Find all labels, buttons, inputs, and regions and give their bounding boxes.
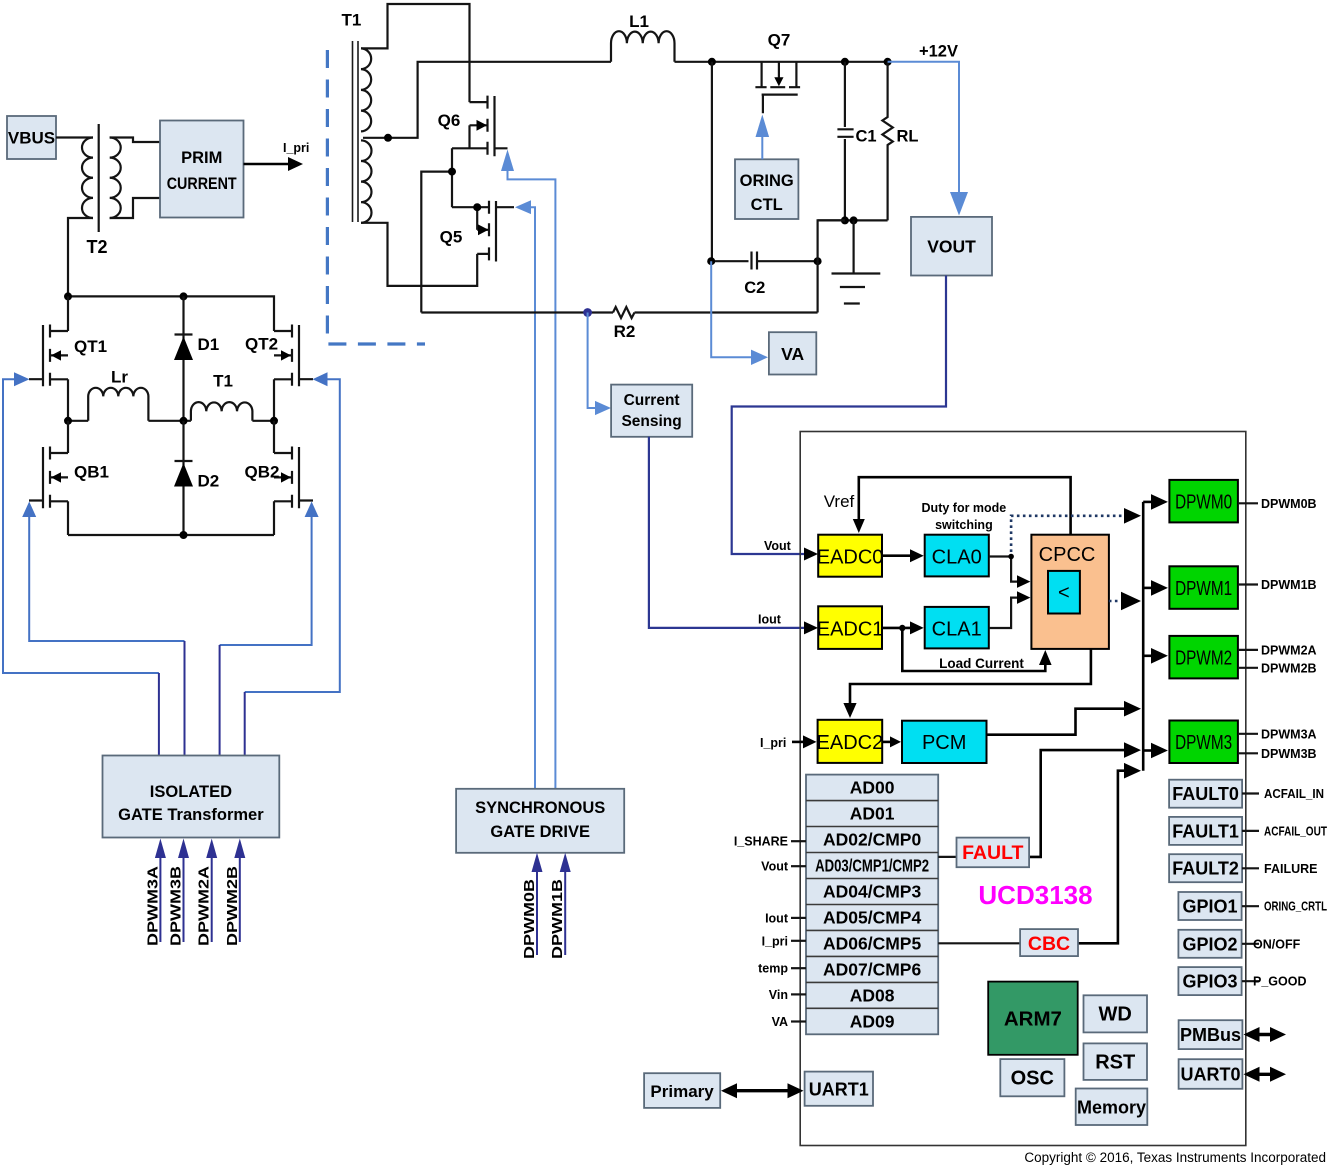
block Current Sensing <box>611 385 692 437</box>
svg-text:T1: T1 <box>213 372 233 391</box>
svg-text:CURRENT: CURRENT <box>167 175 237 193</box>
wire DPWM2B gate drive to QT2 <box>245 379 340 692</box>
wire C2 right to output bottom rail <box>818 220 845 261</box>
wire EADC1 to CLA1 <box>882 627 913 630</box>
wire C2 to VA <box>711 261 752 357</box>
svg-text:CLA1: CLA1 <box>932 619 982 641</box>
wire CPCC bottom to EADC2 <box>850 649 1091 706</box>
svg-text:AD07/CMP6: AD07/CMP6 <box>823 959 921 979</box>
svg-text:FAULT0: FAULT0 <box>1172 784 1239 804</box>
svg-text:ORING_CRTL: ORING_CRTL <box>1264 900 1327 914</box>
node junction mid rail left <box>64 417 72 425</box>
svg-text:QT1: QT1 <box>74 337 107 356</box>
svg-text:AD06/CMP5: AD06/CMP5 <box>823 933 921 953</box>
node pin Vout <box>791 865 806 867</box>
wire DPWM2B input arrow <box>239 858 241 942</box>
wire mux to DPWM2 <box>1143 654 1153 657</box>
svg-text:I_SHARE: I_SHARE <box>734 835 788 849</box>
diode D2 <box>174 421 193 535</box>
svg-text:I_pri: I_pri <box>762 934 788 948</box>
diode D1 <box>174 296 193 420</box>
node pin DPWM2B <box>1238 667 1258 669</box>
block EADC1 <box>817 606 884 649</box>
wire CPCC output dotted to DPWM mux <box>1109 600 1120 603</box>
svg-text:DPWM3A: DPWM3A <box>144 866 161 946</box>
wire load current from EADC1 output to CPCC <box>902 628 1045 671</box>
block GPIO2 <box>1178 930 1241 958</box>
svg-text:FAILURE: FAILURE <box>1264 862 1317 876</box>
svg-text:GPIO1: GPIO1 <box>1182 897 1237 917</box>
block VOUT <box>911 217 992 276</box>
wire Primary to UART1 bidirectional <box>733 1089 791 1092</box>
svg-text:AD03/CMP1/CMP2: AD03/CMP1/CMP2 <box>815 856 929 876</box>
node pin DPWM3A <box>1238 733 1258 735</box>
block GPIO1 <box>1178 892 1241 920</box>
node pin DPWM1B <box>1238 583 1258 585</box>
svg-text:Memory: Memory <box>1077 1098 1146 1118</box>
block CBC <box>1020 929 1078 956</box>
node junction L1/C2 <box>708 58 716 66</box>
svg-text:FAULT: FAULT <box>962 842 1023 864</box>
svg-text:RL: RL <box>897 128 919 146</box>
svg-text:QB1: QB1 <box>74 463 109 482</box>
transformer T2 secondary winding <box>110 138 121 219</box>
wire output bottom rail <box>818 219 888 221</box>
node pin P_GOOD <box>1242 980 1259 982</box>
wire R2 rail <box>421 311 613 313</box>
svg-text:DPWM3: DPWM3 <box>1175 732 1232 754</box>
svg-text:CLA0: CLA0 <box>932 547 982 569</box>
node junction ground rail a <box>841 216 849 224</box>
wire DPWM3A gate drive to QT1 <box>3 379 159 673</box>
block Primary <box>644 1073 720 1108</box>
node pin VA <box>791 1020 806 1022</box>
svg-text:I_pri: I_pri <box>760 736 786 750</box>
wire EADC2 to PCM <box>882 741 893 744</box>
wire CLA0 to CPCC <box>989 557 1020 582</box>
node junction C2 right <box>814 257 822 265</box>
svg-text:AD09: AD09 <box>850 1011 895 1031</box>
resistor RL <box>882 62 892 221</box>
block UART1 <box>805 1072 873 1106</box>
wire AD03 to FAULT <box>938 856 956 858</box>
svg-text:<: < <box>1058 582 1070 604</box>
svg-text:DPWM1B: DPWM1B <box>1261 578 1317 592</box>
svg-text:Q7: Q7 <box>768 31 791 50</box>
wire FAULT to mux <box>1029 750 1126 857</box>
svg-text:VOUT: VOUT <box>927 237 976 257</box>
wire R2 tap to current sensing <box>588 313 596 409</box>
svg-text:ON/OFF: ON/OFF <box>1253 937 1301 951</box>
wire AD06 to CBC <box>938 942 1020 944</box>
node junction bottom rail <box>180 531 188 539</box>
svg-text:ORING: ORING <box>740 172 794 190</box>
wire current sensing to EADC1 <box>649 437 810 628</box>
svg-text:DPWM2B: DPWM2B <box>224 866 241 946</box>
wire T2 secondary bottom to PRIM CURRENT <box>110 198 160 218</box>
block ARM7 <box>988 982 1077 1055</box>
node pin FAILURE <box>1242 867 1259 869</box>
inductor T1 primary <box>191 402 253 421</box>
node R2 tap junction <box>583 308 592 317</box>
wire QT2 source <box>273 379 275 421</box>
svg-text:DPWM3B: DPWM3B <box>168 866 185 946</box>
block DPWM3 <box>1169 721 1238 764</box>
block PRIM CURRENT <box>160 121 244 218</box>
block ORING CTL <box>735 159 798 219</box>
svg-text:Vref: Vref <box>824 492 855 511</box>
svg-text:Vin: Vin <box>769 988 788 1002</box>
node pin DPWM2A <box>1238 649 1258 651</box>
block RST <box>1084 1043 1148 1080</box>
svg-text:Copyright © 2016, Texas Instru: Copyright © 2016, Texas Instruments Inco… <box>1024 1150 1326 1165</box>
svg-text:QT2: QT2 <box>245 335 278 354</box>
node pin Vin <box>791 993 806 995</box>
wire mux to DPWM3 <box>1143 749 1153 752</box>
svg-text:T2: T2 <box>86 237 107 257</box>
svg-text:Vout: Vout <box>764 539 792 553</box>
wire mux to DPWM0 <box>1143 501 1153 504</box>
svg-text:AD04/CMP3: AD04/CMP3 <box>823 882 921 902</box>
svg-text:DPWM2: DPWM2 <box>1175 647 1232 669</box>
wire Q6 source junction <box>421 148 452 312</box>
ground <box>832 220 881 303</box>
wire bridge top rail <box>68 296 274 331</box>
block GPIO3 <box>1178 967 1241 995</box>
block EADC0 <box>817 535 884 577</box>
svg-text:OSC: OSC <box>1011 1068 1054 1090</box>
block PCM <box>902 721 987 763</box>
svg-text:DPWM1: DPWM1 <box>1175 578 1232 600</box>
node pin DPWM3B <box>1238 752 1258 754</box>
svg-text:ISOLATED: ISOLATED <box>150 783 232 801</box>
svg-text:AD00: AD00 <box>850 778 895 798</box>
wire UART0 bidirectional <box>1255 1073 1274 1076</box>
transistor QT2 <box>274 325 313 387</box>
transformer T1 secondary lower winding <box>361 140 372 222</box>
node pin temp <box>791 967 806 969</box>
node junction mid rail right <box>270 417 278 425</box>
wire L1 junction down to C2 <box>711 62 713 261</box>
svg-text:UART0: UART0 <box>1180 1065 1240 1085</box>
transistor QB2 <box>274 447 313 509</box>
block WD <box>1084 995 1148 1032</box>
wire DPWM2A input arrow <box>211 858 213 942</box>
wire DPWM0B sync drive to Q5 gate <box>530 207 535 789</box>
wire DPWM3A input arrow <box>159 858 161 942</box>
node pin ON/OFF <box>1242 943 1259 945</box>
block FAULT2 <box>1169 854 1242 882</box>
svg-text:Sensing: Sensing <box>621 413 681 430</box>
node junction RL top <box>884 58 892 66</box>
wire duty dotted to DPWM mux <box>1011 516 1126 552</box>
wire QB2 drain/source <box>273 421 275 535</box>
transformer T1 secondary upper winding <box>361 48 371 131</box>
svg-text:+12V: +12V <box>919 43 958 61</box>
svg-text:DPWM2A: DPWM2A <box>196 866 213 946</box>
svg-text:temp: temp <box>758 962 788 976</box>
block UART0 <box>1179 1059 1243 1089</box>
node pin Iout <box>791 917 806 919</box>
svg-text:CPCC: CPCC <box>1039 544 1096 566</box>
svg-text:DPWM0B: DPWM0B <box>1261 497 1317 511</box>
svg-text:EADC0: EADC0 <box>817 547 884 569</box>
block EADC2 <box>817 720 884 763</box>
svg-text:ARM7: ARM7 <box>1004 1008 1062 1031</box>
svg-text:GPIO3: GPIO3 <box>1182 972 1237 992</box>
svg-text:VBUS: VBUS <box>8 129 55 148</box>
svg-text:PCM: PCM <box>922 732 966 754</box>
transistor QB1 <box>29 447 68 509</box>
svg-text:EADC2: EADC2 <box>817 732 884 754</box>
block OSC <box>1000 1059 1064 1096</box>
svg-text:D1: D1 <box>198 335 220 354</box>
wire Vref feedback from CPCC <box>859 477 1071 535</box>
svg-text:PMBus: PMBus <box>1180 1025 1241 1045</box>
node Q5 drain junction <box>473 203 481 211</box>
svg-text:GATE Transformer: GATE Transformer <box>118 806 264 824</box>
wire T1 secondary top to Q6 drain <box>361 4 470 102</box>
svg-text:Iout: Iout <box>765 911 789 925</box>
wire DPWM mux vertical <box>1142 502 1145 771</box>
wire R2 rail right <box>635 311 818 313</box>
svg-text:CBC: CBC <box>1028 933 1070 955</box>
svg-text:I_pri: I_pri <box>283 141 309 155</box>
svg-text:QB2: QB2 <box>245 463 280 482</box>
wire T1 secondary bottom <box>361 223 477 286</box>
transistor Q7 <box>755 62 800 114</box>
wire pins into isolated gate transformer <box>159 641 245 756</box>
block CLA0 <box>925 535 989 577</box>
node T1 center tap <box>384 134 392 142</box>
svg-text:L1: L1 <box>629 12 649 31</box>
block FAULT <box>957 838 1030 868</box>
node junction mid rail center <box>180 417 188 425</box>
svg-text:SYNCHRONOUS: SYNCHRONOUS <box>475 799 605 817</box>
svg-text:Lr: Lr <box>111 368 128 387</box>
node pin I_pri <box>791 940 806 942</box>
wire DPWM3B input arrow <box>183 858 185 942</box>
wire +12V to VOUT <box>888 62 959 193</box>
svg-text:AD02/CMP0: AD02/CMP0 <box>823 830 921 850</box>
svg-text:ACFAIL_OUT: ACFAIL_OUT <box>1264 824 1327 838</box>
svg-text:DPWM2B: DPWM2B <box>1261 661 1317 675</box>
svg-text:Vout: Vout <box>761 860 789 874</box>
svg-text:DPWM3B: DPWM3B <box>1261 747 1317 761</box>
block DPWM0 <box>1169 480 1238 523</box>
block UCD3138 outline <box>800 432 1246 1146</box>
node junction top rail left <box>64 292 72 300</box>
svg-text:P_GOOD: P_GOOD <box>1253 975 1307 989</box>
block CLA1 <box>925 607 989 649</box>
wire DPWM0B input arrow <box>536 872 538 955</box>
node junction ground rail b <box>850 216 858 224</box>
transistor QT1 <box>29 325 68 387</box>
capacitor C2 <box>711 252 817 270</box>
node pin I_SHARE <box>791 840 806 842</box>
svg-text:RST: RST <box>1095 1052 1135 1074</box>
wire EADC0 to CLA0 <box>882 554 913 557</box>
node pin ORING_CRTL <box>1242 905 1259 907</box>
block CPCC <box>1031 535 1109 649</box>
wire PMBus bidirectional <box>1255 1033 1274 1036</box>
wire DPWM1B input arrow <box>564 872 566 955</box>
node CLA0 output junction <box>1008 554 1014 560</box>
transformer T2 primary winding <box>82 138 93 219</box>
svg-text:Iout: Iout <box>758 613 782 627</box>
svg-text:AD08: AD08 <box>850 985 895 1005</box>
wire DPWM2A gate drive to QB2 <box>220 516 312 645</box>
svg-text:Duty for mode: Duty for mode <box>922 501 1007 515</box>
svg-text:DPWM1B: DPWM1B <box>549 879 566 959</box>
wire QB1 drain <box>67 421 69 453</box>
wire isolation boundary dashed <box>327 50 425 344</box>
svg-text:PRIM: PRIM <box>181 149 222 167</box>
svg-text:Load Current: Load Current <box>939 656 1024 671</box>
svg-text:AD01: AD01 <box>850 804 895 824</box>
wire T1 center tap to L1 rail <box>363 62 611 138</box>
wire I_pri output arrow <box>244 163 291 166</box>
wire ORING CTL to Q7 gate <box>761 135 763 159</box>
svg-text:R2: R2 <box>614 322 636 341</box>
transistor Q6 <box>452 96 508 157</box>
svg-text:EADC1: EADC1 <box>817 619 884 641</box>
svg-text:switching: switching <box>935 518 993 532</box>
transistor Q5 <box>452 201 514 262</box>
wire QT1 drain <box>67 296 69 331</box>
block DPWM1 <box>1169 566 1238 609</box>
svg-text:FAULT1: FAULT1 <box>1172 821 1239 841</box>
node pin ACFAIL_IN <box>1242 792 1259 794</box>
wire output rail <box>675 61 888 63</box>
inductor L1 <box>611 31 675 62</box>
wire DPWM3B gate drive to QB1 <box>29 516 184 641</box>
wire I_pri input to EADC2 <box>792 741 806 744</box>
block Memory <box>1076 1089 1148 1126</box>
block AD channel table <box>806 775 938 1035</box>
wire mux to DPWM1 <box>1143 587 1153 590</box>
svg-text:UCD3138: UCD3138 <box>978 880 1092 910</box>
svg-text:ACFAIL_IN: ACFAIL_IN <box>1264 787 1324 801</box>
svg-text:VA: VA <box>781 344 804 364</box>
node junction top rail D1 <box>180 292 188 300</box>
svg-text:CTL: CTL <box>751 196 783 214</box>
resistor R2 <box>613 307 635 318</box>
svg-text:GPIO2: GPIO2 <box>1182 934 1237 954</box>
wire QT1 source <box>67 379 69 421</box>
node junction C1 top <box>841 58 849 66</box>
svg-text:VA: VA <box>772 1015 788 1029</box>
svg-text:Current: Current <box>624 392 680 409</box>
wire QB1 source <box>67 501 69 535</box>
svg-text:UART1: UART1 <box>809 1080 869 1100</box>
svg-text:AD05/CMP4: AD05/CMP4 <box>823 908 921 928</box>
block FAULT0 <box>1169 780 1242 808</box>
svg-text:FAULT2: FAULT2 <box>1172 859 1239 879</box>
svg-text:C2: C2 <box>744 279 765 297</box>
capacitor C1 <box>837 62 853 221</box>
block FAULT1 <box>1169 817 1242 845</box>
svg-text:Q6: Q6 <box>438 111 461 130</box>
wire bridge mid rail <box>68 420 274 422</box>
svg-text:DPWM3A: DPWM3A <box>1261 727 1317 741</box>
node pin DPWM0B <box>1238 502 1258 504</box>
wire bridge bottom rail <box>68 534 274 536</box>
svg-text:T1: T1 <box>341 11 361 30</box>
svg-text:GATE DRIVE: GATE DRIVE <box>490 823 590 841</box>
svg-text:DPWM2A: DPWM2A <box>1261 643 1317 657</box>
node VBUS <box>7 116 56 159</box>
wire C2 right down to R2 rail <box>816 261 818 312</box>
svg-text:Primary: Primary <box>650 1082 714 1101</box>
svg-text:WD: WD <box>1099 1004 1132 1026</box>
wire PCM to DPWM mux <box>987 709 1127 735</box>
transformer T1 core <box>353 41 359 222</box>
svg-text:DPWM0B: DPWM0B <box>521 879 538 959</box>
node pin ACFAIL_OUT <box>1242 830 1259 832</box>
wire T2 secondary top to PRIM CURRENT <box>110 138 160 143</box>
block VA <box>769 332 816 374</box>
wire VOUT to EADC0 <box>732 276 946 555</box>
svg-text:DPWM0: DPWM0 <box>1175 491 1232 513</box>
block SYNCHRONOUS GATE DRIVE <box>456 789 624 853</box>
inductor Lr <box>88 388 148 421</box>
svg-text:D2: D2 <box>198 472 220 491</box>
transformer T2 core <box>98 124 100 232</box>
svg-text:Q5: Q5 <box>440 228 463 247</box>
wire DPWM1B sync drive to Q6 gate <box>508 170 556 789</box>
wire T2 primary bottom to bridge <box>68 218 93 296</box>
svg-text:C1: C1 <box>856 128 877 146</box>
wire CBC to mux <box>1078 771 1126 944</box>
block PMBus <box>1179 1020 1243 1049</box>
node Q6 source junction <box>448 168 456 176</box>
node junction C2 left <box>707 257 715 265</box>
wire CLA1 to CPCC <box>989 598 1020 628</box>
block ISOLATED GATE Transformer <box>103 756 280 838</box>
wire VBUS to T2 <box>56 136 93 138</box>
block DPWM2 <box>1169 636 1238 679</box>
